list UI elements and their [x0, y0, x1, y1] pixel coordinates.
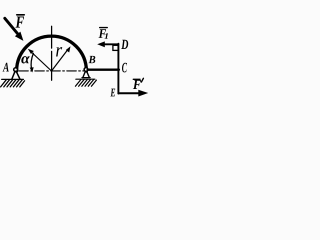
center vertical dashed line	[51, 26, 53, 80]
support A triangle	[12, 71, 20, 79]
force F-prime arrow shaft at E	[118, 92, 138, 94]
prime tick of F-prime	[141, 78, 143, 82]
angle alpha arc	[31, 53, 33, 69]
bar B-C	[88, 69, 119, 71]
arrowhead of ray r	[66, 46, 71, 52]
label r	[56, 47, 62, 56]
support B triangle base	[82, 77, 90, 79]
label sub_1	[104, 33, 108, 39]
diameter dash-dot center line A-B	[19, 70, 84, 72]
support A hatching	[1, 80, 25, 87]
support A pin circle	[14, 68, 18, 72]
radius ray up-left to load point	[32, 53, 52, 72]
overbar of F	[17, 14, 24, 16]
radius ray r up-right	[52, 50, 68, 71]
label alpha	[21, 56, 30, 63]
support B triangle	[83, 71, 89, 77]
force F1 arrowhead	[97, 41, 105, 47]
label F_p	[133, 80, 141, 89]
vertical member D-C-E	[117, 44, 119, 94]
arrowhead of alpha arc	[30, 67, 34, 72]
label F_1	[99, 29, 106, 38]
label F_main	[16, 16, 24, 27]
overbar of F1	[100, 27, 108, 29]
support B pin circle	[84, 68, 88, 72]
label B	[89, 56, 96, 63]
support B hatching	[75, 80, 96, 87]
label D	[121, 40, 128, 49]
force F-prime arrowhead	[138, 90, 148, 97]
label E	[110, 89, 115, 97]
force F1 arrow shaft at D	[105, 43, 119, 45]
force F arrowhead	[15, 32, 24, 41]
semicircular arch A-B	[17, 36, 87, 71]
label C	[122, 63, 127, 73]
support A ground line	[2, 78, 24, 80]
force F arrow shaft	[5, 18, 18, 33]
label A	[3, 63, 9, 72]
right angle marker at D	[113, 45, 118, 50]
support B ground line	[76, 78, 95, 80]
arrowhead of up-left ray	[28, 49, 34, 54]
overbar of F-prime	[133, 78, 140, 80]
